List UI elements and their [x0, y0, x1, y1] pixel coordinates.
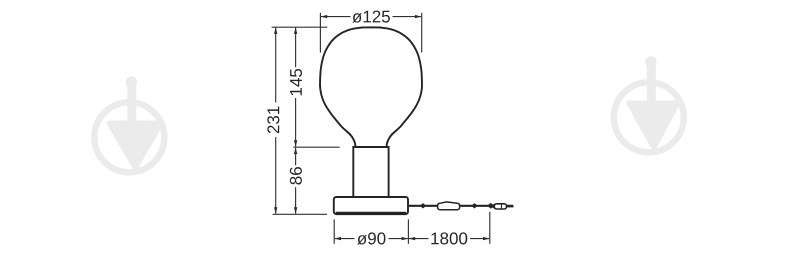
plug body	[492, 204, 495, 208]
dim label 86	[290, 167, 302, 185]
dim 231 line upper segment	[275, 28, 277, 103]
dim ø125 line left segment	[321, 16, 351, 18]
dim 1800 arrow right	[483, 237, 490, 240]
lamp socket body	[353, 147, 388, 197]
dim 86 line upper segment	[295, 148, 297, 166]
dim 86 arrow top	[294, 148, 297, 155]
dim 1800 line left segment	[409, 238, 429, 240]
lamp base	[334, 197, 408, 214]
dim 86 line lower segment	[295, 187, 297, 214]
dim 231 arrow top	[274, 27, 277, 34]
dim ø125 arrow right	[415, 15, 422, 18]
lamp base thick bottom edge	[336, 212, 407, 215]
dim 231 / 145 top extension line	[272, 26, 328, 28]
dim 1800 extension line right	[489, 212, 491, 244]
dim 145 / 86 junction extension line	[293, 146, 340, 148]
dim label 231	[267, 107, 279, 134]
cable bead 3	[487, 203, 494, 209]
dim label 1800	[431, 232, 467, 244]
dim 1800 arrow left	[409, 237, 416, 240]
dim 231 arrow bottom	[274, 207, 277, 214]
dim 145 line lower segment	[295, 98, 297, 147]
cable bead 2	[471, 203, 477, 208]
dim ø125 extension line right	[421, 13, 423, 53]
dim ø90 line left segment	[335, 238, 355, 240]
dim 145 arrow bottom	[294, 140, 297, 147]
plug pin	[507, 205, 514, 207]
dim label 145	[290, 69, 302, 95]
dim ø125 line right segment	[393, 16, 422, 18]
lamp bulb globe outline	[320, 27, 422, 147]
dim ø90 arrow left	[335, 237, 342, 240]
dim 86 arrow bottom	[294, 207, 297, 214]
dim 231 / 86 bottom extension line	[273, 213, 327, 215]
dim ø125 extension line left	[319, 13, 321, 53]
inline switch	[438, 202, 460, 210]
dim ø90 / 1800 shared extension line	[407, 219, 409, 244]
watermark right logo (trowel in circle)	[614, 56, 684, 152]
dim ø125 arrow left	[321, 15, 328, 18]
dim label ø125	[352, 11, 390, 23]
dim ø90 arrow right	[402, 237, 409, 240]
watermark left logo (trowel in circle)	[94, 76, 164, 172]
dim ø90 extension line left	[333, 219, 335, 244]
dim 231 line lower segment	[275, 137, 277, 214]
dim label ø90	[357, 232, 385, 244]
power cable	[409, 205, 513, 207]
dim ø90 line right segment	[389, 238, 408, 240]
dim 1800 line right segment	[470, 238, 489, 240]
cable bead 1	[420, 203, 426, 208]
dim 145 arrow top	[294, 27, 297, 34]
dim 145 line upper segment	[295, 28, 297, 68]
